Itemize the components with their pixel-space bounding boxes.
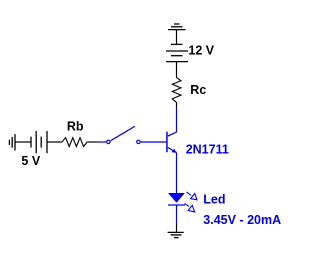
switch S1 left contact — [107, 140, 110, 143]
svg-text:5 V: 5 V — [21, 154, 40, 168]
svg-text:Rb: Rb — [67, 120, 84, 134]
wire LED to ground (black part) — [176, 224, 178, 233]
ground (top, above 12V battery) — [168, 24, 186, 30]
wire 5V battery to Rb — [47, 141, 62, 143]
resistor Rc — [172, 78, 181, 103]
wire left ground to 5V battery — [15, 141, 31, 143]
switch S1 lever (open) — [111, 126, 135, 140]
resistor Rb — [62, 138, 87, 147]
svg-text:Led: Led — [203, 193, 225, 207]
ground (left, at 5V battery) — [9, 134, 15, 150]
LED D1 cathode bar — [168, 204, 185, 206]
wire Rc lead (black) — [176, 102, 178, 107]
switch S1 right contact — [137, 140, 140, 143]
svg-text:Rc: Rc — [190, 83, 206, 97]
transistor Q1 2N1711 — [166, 132, 177, 153]
LED emission arrow 1 — [187, 192, 197, 200]
svg-text:3.45V - 20mA: 3.45V - 20mA — [203, 213, 281, 227]
wire Rb to switch (blue) — [97, 141, 106, 143]
wire Rb lead (black) — [87, 141, 97, 143]
battery V2 12V plates — [166, 44, 188, 61]
wire switch to base (blue) — [141, 141, 167, 143]
svg-text:2N1711: 2N1711 — [186, 143, 229, 157]
battery V1 5V plates — [31, 131, 47, 153]
wire top ground to 12V battery — [176, 30, 178, 45]
wire LED to ground (blue part) — [176, 205, 178, 224]
LED D1 triangle — [168, 193, 185, 203]
wire Rc to collector (blue) — [176, 108, 178, 133]
wire 12V battery to Rc — [176, 62, 178, 78]
svg-text:12 V: 12 V — [188, 44, 214, 58]
LED emission arrow 2 — [185, 203, 195, 212]
wire emitter to LED (blue) — [176, 152, 178, 193]
ground (bottom, below LED) — [168, 232, 184, 237]
